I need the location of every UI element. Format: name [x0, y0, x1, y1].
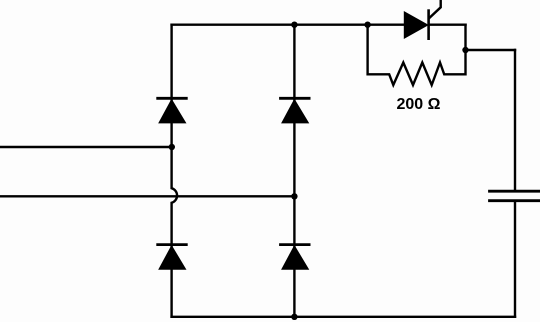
node bottom input joins middle vertical: [291, 193, 297, 199]
wire bottom AC input: [0, 195, 294, 197]
diode D2 upper-middle: [281, 98, 310, 123]
diode D1 upper-left: [158, 98, 187, 123]
node bottom rail joins middle vertical: [291, 314, 297, 320]
wire bottom rail: [172, 316, 515, 318]
capacitor C1: [490, 191, 540, 201]
diode D4 lower-middle: [281, 245, 310, 270]
wire middle bridge vertical: [293, 25, 295, 317]
thyristor SCR Q1: [404, 0, 440, 39]
diode D3 lower-left: [158, 245, 187, 270]
wire top AC input: [0, 146, 172, 148]
wire output tap to right rail: [466, 49, 516, 51]
wire left bridge vertical with hop over bottom input: [172, 25, 177, 317]
node top rail joins middle vertical: [291, 22, 297, 28]
wire SCR cathode to right bend: [429, 24, 466, 26]
svg-text:200 Ω: 200 Ω: [397, 96, 441, 113]
node output tap: [462, 47, 468, 53]
wire top rail: [172, 24, 405, 26]
wire right rail lower (capacitor to bottom): [514, 201, 516, 317]
resistor R1 200 ohm parallel branch: [368, 25, 466, 85]
wire right rail upper (to capacitor): [514, 50, 516, 191]
node top input joins left vertical: [169, 144, 175, 150]
node resistor branch joins top rail: [364, 22, 370, 28]
